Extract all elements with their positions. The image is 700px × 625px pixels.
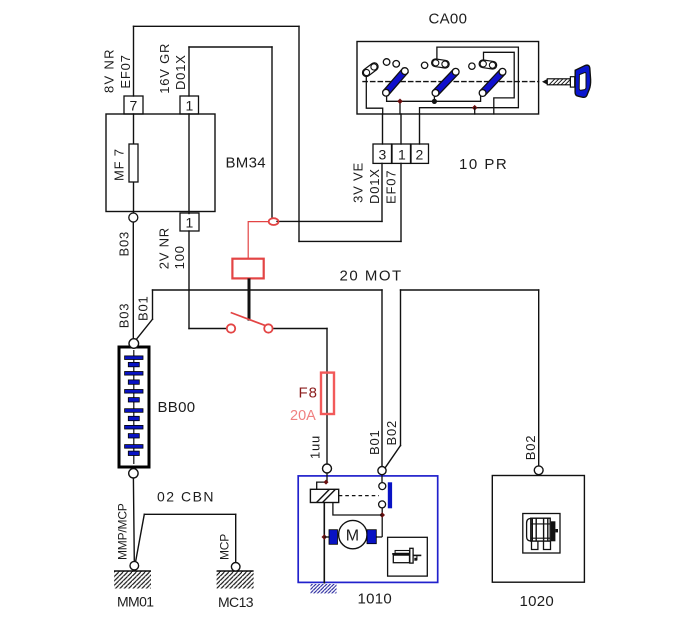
ground MM01: [114, 561, 151, 588]
svg-text:MMP/MCP: MMP/MCP: [116, 503, 130, 560]
svg-text:BB00: BB00: [158, 399, 196, 416]
wafer1 feed wire from OFF contact to pin3: [366, 76, 382, 115]
wire CA00 to pin box 2: [419, 114, 421, 144]
pin box 1 BM34 top: [180, 96, 199, 114]
wire CA00 to pin box 1: [400, 114, 402, 144]
box 1020 alternator unit: [492, 476, 584, 583]
svg-text:MCP: MCP: [217, 534, 231, 560]
wire B02 alternator down: [538, 290, 540, 466]
junction dot pin2 bus: [472, 105, 478, 111]
svg-text:02 CBN: 02 CBN: [157, 489, 215, 505]
svg-text:B03: B03: [116, 303, 131, 329]
wire D01X horizontal: [189, 46, 272, 48]
svg-text:D01X: D01X: [367, 168, 382, 204]
fuse F8: [321, 373, 334, 414]
pin box 1 CA00: [392, 144, 411, 163]
wafer3 OFF capsule: [479, 60, 497, 70]
svg-text:1: 1: [186, 98, 194, 114]
wire pin7 BM34 up to top rail: [133, 26, 135, 96]
battery BB00: [119, 339, 149, 478]
node 1UU: [323, 464, 332, 473]
wire B01 down to starter: [381, 290, 383, 467]
wire to right brush: [376, 536, 382, 538]
svg-text:B01: B01: [135, 295, 150, 321]
ground lead: [323, 503, 325, 584]
node B01 starter: [378, 467, 386, 475]
wire down right of BM34: [298, 26, 300, 241]
pin2 bus: [420, 47, 519, 114]
svg-text:2V NR: 2V NR: [156, 227, 171, 269]
brush left: [329, 530, 338, 545]
wire alternator rail: [401, 289, 539, 291]
svg-text:1020: 1020: [520, 593, 555, 610]
svg-text:CA00: CA00: [429, 11, 468, 28]
svg-text:7: 7: [130, 98, 138, 114]
wire contact to junction: [381, 508, 383, 537]
svg-text:MM01: MM01: [117, 594, 154, 610]
wire B02 diagonal to node: [385, 446, 401, 469]
pin1 tap from bus: [399, 101, 401, 114]
svg-text:1uu: 1uu: [308, 435, 323, 459]
svg-text:B01: B01: [367, 429, 382, 455]
wafer2 common tap: [433, 96, 435, 101]
svg-text:3V VE: 3V VE: [351, 162, 366, 203]
wafer3 free contact: [469, 63, 475, 69]
wire battery negative down: [132, 478, 135, 561]
wire B01 into box: [381, 475, 383, 483]
wire horizontal pin3 to red node: [277, 220, 382, 222]
solenoid coil: [310, 489, 338, 502]
starter icon box: [388, 537, 428, 576]
wafer3 OFF contact path: [484, 52, 515, 114]
wafer2 OFF capsule: [431, 59, 449, 69]
wire 20 MOT bus: [153, 289, 383, 291]
pin box 2 CA00: [411, 144, 429, 163]
wafer W1: [361, 59, 408, 96]
switch blade red: [231, 313, 266, 326]
wire 1UU through fuse F8: [326, 329, 328, 465]
svg-text:3: 3: [379, 147, 387, 163]
red ignition control box: [232, 259, 263, 279]
junction dot ground brush: [322, 534, 328, 540]
svg-text:10 PR: 10 PR: [459, 156, 508, 173]
red ignition node: [269, 218, 279, 225]
svg-text:20 MOT: 20 MOT: [340, 268, 403, 285]
wire D01X down to node: [271, 47, 273, 218]
svg-text:MF 7: MF 7: [112, 148, 127, 181]
motor M: [339, 520, 367, 548]
wafer2 rotor bar: [433, 69, 458, 95]
wafer1 rotor bar: [383, 68, 408, 95]
wire CA00 pin1 down: [400, 163, 402, 241]
switch contact left: [227, 324, 235, 332]
svg-text:B02: B02: [523, 435, 538, 461]
wire BM34 pin1 internal: [188, 114, 190, 214]
svg-text:D01X: D01X: [173, 54, 188, 90]
wafer2 rotor end circles: [432, 90, 439, 97]
wafer1 contact a: [383, 59, 390, 66]
ignition key: [542, 65, 591, 97]
wire to switch left contact: [189, 328, 227, 330]
svg-text:8V NR: 8V NR: [102, 48, 117, 93]
node B02 alternator: [534, 466, 543, 475]
svg-text:1: 1: [398, 147, 406, 163]
alternator icon box: [523, 514, 560, 554]
box BM34: [106, 114, 215, 212]
node battery plus: [129, 339, 139, 349]
moving contact blue bar: [388, 482, 392, 508]
wire MMP diagonal: [136, 514, 145, 560]
red wire to ignition box: [248, 222, 269, 259]
wafer1 contact b: [393, 61, 400, 68]
wire horizontal to CA00 pin 1: [299, 240, 401, 242]
contact circle top: [379, 483, 386, 490]
svg-text:100: 100: [172, 245, 187, 269]
alternator icon: [527, 518, 558, 549]
svg-text:EF07: EF07: [384, 170, 399, 204]
wire top rail BF07: [134, 25, 300, 27]
svg-text:16V GR: 16V GR: [157, 43, 172, 94]
wire CA00 to pin box 3: [382, 114, 384, 144]
switch contact right: [264, 324, 272, 332]
wire B01 diagonal to battery: [135, 319, 153, 341]
junction dot pin1: [397, 99, 403, 105]
wire CA00 pin3 down: [381, 163, 383, 221]
wafer1 OFF capsule: [361, 61, 380, 78]
wire 02 CBN horizontal: [144, 513, 235, 515]
wafer2 free contact: [421, 62, 427, 68]
pin box 1 BM34 bottom: [180, 213, 199, 231]
box CA00: [357, 42, 539, 115]
wire MCP down: [235, 514, 237, 562]
main bus wafer commons: [387, 96, 481, 101]
pin box 3 CA00: [373, 144, 392, 163]
svg-text:1010: 1010: [358, 591, 393, 608]
wafer3 rotor end circles: [479, 90, 486, 97]
fuse MF7: [129, 144, 138, 182]
wire through MF7 fuse: [133, 114, 135, 214]
wire switch right contact to fuse: [273, 328, 327, 330]
node battery minus: [129, 469, 138, 478]
wafer W2: [421, 59, 459, 97]
svg-text:20A: 20A: [290, 408, 316, 424]
dashed key axis: [363, 81, 539, 83]
wire left brush: [324, 536, 329, 538]
wire 2V NR 100 down to switch level: [188, 231, 190, 329]
svg-text:EF07: EF07: [118, 54, 133, 88]
pin box 7 BM34: [124, 96, 143, 114]
wafer3 rotor bar: [480, 69, 505, 95]
dashed actuation line: [339, 495, 379, 497]
svg-text:BM34: BM34: [226, 155, 266, 172]
junction dot motor: [379, 512, 385, 518]
svg-text:2: 2: [416, 147, 424, 163]
node B03 terminal: [129, 213, 138, 222]
wire coil pull-in to junction: [333, 503, 382, 516]
wafer W3: [469, 60, 506, 97]
svg-text:B03: B03: [116, 231, 131, 257]
brush right: [367, 530, 376, 544]
wafer1 rotor end circles: [383, 89, 390, 96]
svg-text:MC13: MC13: [218, 594, 254, 610]
actuator link thick: [248, 278, 251, 320]
wire B02 down: [400, 290, 402, 446]
svg-text:M: M: [346, 528, 359, 545]
contact circle bottom: [379, 501, 386, 508]
svg-text:B02: B02: [384, 420, 399, 446]
wire B03 battery feed: [132, 222, 134, 339]
junction dot wafer2: [432, 99, 437, 104]
wire 1uu into box: [317, 473, 327, 489]
ground hatch 1010: [311, 584, 337, 593]
stub below dot: [474, 108, 476, 114]
starter icon: [392, 548, 421, 563]
box 1010 starter unit: [298, 473, 438, 593]
junction dot 1uu: [324, 480, 329, 485]
svg-text:F8: F8: [299, 385, 319, 402]
wire BM34 pin1 up: [188, 47, 190, 96]
svg-text:1: 1: [186, 215, 194, 231]
ground MC13: [217, 563, 254, 589]
wire bus left stub: [152, 290, 154, 319]
